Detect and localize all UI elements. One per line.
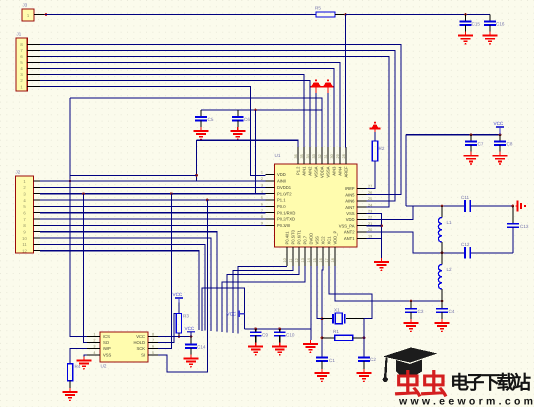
svg-text:AIN5: AIN5: [345, 192, 355, 197]
svg-text:C12: C12: [461, 242, 470, 247]
svg-text:P1.2: P1.2: [296, 166, 301, 175]
junction antenna node: [511, 205, 514, 208]
svg-text:4: 4: [93, 351, 95, 355]
wire R2 to U1 pin27: [367, 161, 376, 188]
svg-text:VSS_PA: VSS_PA: [339, 223, 355, 228]
junction L1 top: [441, 205, 444, 208]
svg-text:7: 7: [152, 339, 154, 343]
svg-text:P0.7: P0.7: [303, 235, 308, 244]
svg-text:11: 11: [22, 242, 27, 247]
wire U1 pin20 to bottom rail: [367, 232, 466, 253]
junction C3 tap: [410, 300, 413, 303]
resistor R1: [335, 335, 353, 340]
wire R5 junction to C16: [346, 14, 491, 16]
svg-text:U2: U2: [101, 364, 107, 369]
svg-text:31: 31: [324, 154, 328, 158]
svg-text:2: 2: [93, 339, 95, 343]
wire J2 pin2 to U1 pin3: [40, 186, 266, 188]
inductor L2: [438, 265, 442, 290]
junction J2 row1 at x70 crossing: [69, 180, 72, 183]
wire long net to U1 pin32: [70, 98, 322, 147]
ground under C2: [357, 369, 372, 382]
svg-text:P0.4/I1: P0.4/I1: [285, 231, 290, 245]
wire U2 HOLD up: [158, 314, 179, 343]
svg-text:10: 10: [22, 236, 27, 241]
IC U1 nRF24E1 body: [275, 164, 358, 247]
svg-text:VDD: VDD: [277, 172, 286, 177]
wire J2 pin4 to U1 pin5: [40, 199, 266, 201]
svg-text:AIN1: AIN1: [302, 166, 307, 176]
svg-text:XC1: XC1: [327, 236, 332, 245]
svg-text:VSS: VSS: [346, 211, 355, 216]
resistor R2: [372, 141, 377, 161]
svg-text:C15: C15: [472, 22, 481, 27]
svg-text:P0.0: P0.0: [277, 204, 286, 209]
svg-text:J3: J3: [23, 3, 28, 8]
wire U1 pin16 down to crystal node: [322, 266, 323, 358]
svg-text:P1.0/T2: P1.0/T2: [277, 191, 292, 196]
capacitor C11: [461, 195, 470, 212]
wire U1 pin18 to antenna low node: [335, 266, 442, 301]
svg-text:C16: C16: [496, 22, 505, 27]
svg-text:/WP: /WP: [103, 346, 111, 351]
VCC above C8: [496, 126, 504, 128]
wire J1 pin5 to U1 pin29: [40, 62, 340, 147]
wire J2 pin3 to U2 SO: [84, 194, 88, 343]
svg-text:VDD: VDD: [346, 217, 355, 222]
ground under C1: [315, 369, 330, 382]
connector J2: [16, 170, 41, 254]
svg-text:1: 1: [93, 333, 95, 337]
antenna port symbol: [516, 201, 527, 212]
IC U2 pins: [87, 333, 158, 358]
svg-text:/CS: /CS: [103, 334, 110, 339]
IC U2 body: [100, 332, 148, 362]
capacitor C16: [484, 15, 505, 32]
wire vertical to VDD row: [196, 140, 198, 181]
inductor L1 top lead: [441, 206, 443, 218]
wire top rail right: [470, 205, 514, 207]
junction rail-C6 tap: [254, 109, 257, 112]
wire J2 pin12 down: [40, 251, 199, 330]
svg-text:VSSA: VSSA: [314, 166, 319, 177]
node J3 wire start: [45, 13, 48, 16]
wire U1 pin14 down: [310, 266, 312, 340]
wire J2 pin3 to U2 SCK: [158, 194, 171, 349]
junction X1 left: [321, 317, 324, 320]
svg-text:AREF: AREF: [344, 166, 349, 178]
connector J1: [16, 32, 40, 92]
capacitor C14: [185, 337, 206, 355]
inductor L2 bottom lead: [441, 289, 443, 301]
power VDD arrow right: [324, 79, 333, 86]
wire C9 rail up corner: [202, 288, 245, 331]
ground under U1 pin14: [303, 340, 318, 353]
wire J1 pin8 to U1 pin26 column: [40, 44, 401, 194]
wire R4 bottom lead: [69, 381, 71, 388]
capacitor C13: [507, 224, 529, 229]
svg-text:C10: C10: [286, 333, 295, 338]
power arrow above R2: [370, 122, 381, 132]
wire J2 pin5 to U1 pin6: [40, 205, 266, 207]
wire U2 VCC row: [158, 336, 191, 338]
wire J2 pin11 down: [40, 244, 205, 330]
junction SI tap: [206, 199, 209, 202]
inductor L2 top lead: [441, 253, 443, 265]
wire x70 down to U2 CS: [70, 98, 87, 337]
svg-text:C3: C3: [418, 309, 424, 314]
logo graduation cap: [383, 348, 438, 383]
ground U2 VSS: [77, 357, 92, 370]
wire VDD arrow left to U1 pin33: [315, 93, 317, 147]
capacitor C13 top lead: [512, 206, 514, 224]
svg-text:C1: C1: [329, 358, 335, 363]
wire R5 to junction: [335, 14, 346, 16]
capacitor C12: [461, 242, 470, 259]
wire J2 pin8 to U1 pin9: [40, 224, 266, 226]
junction R1 right: [363, 337, 366, 340]
wire VDD row left segment: [70, 174, 197, 176]
svg-text:17: 17: [325, 258, 329, 262]
svg-text:HOLD: HOLD: [133, 340, 145, 345]
svg-text:C7: C7: [478, 142, 484, 147]
power stub right: [327, 87, 329, 93]
wire R3 bottom lead: [178, 333, 180, 337]
wire R1 left lead: [322, 337, 335, 339]
svg-text:AIN4: AIN4: [338, 166, 343, 176]
svg-text:32: 32: [318, 154, 322, 158]
wire J1 pin6 to U1 pin24 column: [40, 56, 389, 207]
wire J1 pin3 to U1 pin35: [40, 74, 304, 147]
junction C4-L2 tap: [441, 300, 444, 303]
capacitor C10: [274, 329, 295, 343]
wire VDD arrow right to U1 pin31: [327, 93, 329, 147]
svg-text:IREF: IREF: [345, 186, 355, 191]
svg-text:ANT1: ANT1: [344, 236, 355, 241]
svg-text:电子下载站: 电子下载站: [450, 372, 531, 394]
svg-text:VDD_P: VDD_P: [333, 230, 338, 244]
junction C9 tap: [254, 327, 257, 330]
svg-text:VCC: VCC: [227, 311, 237, 316]
wire C5-C6 rail: [201, 109, 322, 111]
resistor R3: [176, 314, 181, 334]
svg-text:29: 29: [336, 154, 340, 158]
ground under C15: [458, 32, 473, 45]
wire J2 pin4 to U2 SI: [158, 200, 207, 372]
wire C9C10 rail: [245, 328, 311, 330]
svg-text:14: 14: [307, 258, 311, 262]
wire bottom rail right: [470, 252, 513, 254]
svg-text:VDDA: VDDA: [320, 166, 325, 178]
ground under C5: [194, 127, 209, 140]
svg-text:AIN2: AIN2: [308, 166, 313, 176]
svg-text:8: 8: [152, 333, 154, 337]
VCC at C9 rail: [238, 311, 240, 317]
svg-text:VSS: VSS: [103, 353, 112, 358]
svg-text:SCK: SCK: [136, 346, 145, 351]
svg-text:10: 10: [283, 258, 287, 262]
svg-text:C9: C9: [262, 333, 268, 338]
ground under C4: [435, 319, 450, 332]
svg-text:35: 35: [300, 154, 304, 158]
svg-text:U1: U1: [275, 153, 281, 158]
svg-text:12: 12: [22, 249, 27, 254]
svg-text:AIN3: AIN3: [332, 166, 337, 176]
svg-text:AIN7: AIN7: [345, 205, 355, 210]
junction R3 to VCC row: [178, 335, 181, 338]
wire U2 VSS to ground: [84, 355, 87, 357]
junction L1 bottom: [441, 251, 444, 254]
svg-text:R3: R3: [183, 314, 189, 319]
wire R2 top lead: [374, 132, 376, 141]
svg-text:VCC: VCC: [173, 292, 183, 297]
svg-text:33: 33: [312, 154, 316, 158]
svg-text:36: 36: [294, 154, 298, 158]
wire top rail left: [406, 205, 465, 207]
svg-text:C11: C11: [461, 195, 470, 200]
svg-text:C4: C4: [449, 309, 455, 314]
wire J1 pin2 to U1 pin34: [40, 80, 310, 147]
svg-text:C6: C6: [244, 117, 250, 122]
ground under C8: [493, 152, 508, 165]
svg-text:28: 28: [342, 154, 346, 158]
junction C8 tap: [499, 133, 502, 136]
inductor L1: [438, 218, 442, 243]
svg-text:30: 30: [330, 154, 334, 158]
ground under C9: [248, 343, 263, 356]
svg-text:34: 34: [306, 154, 310, 158]
svg-text:P1.1: P1.1: [277, 198, 286, 203]
inductor L1 bottom lead: [441, 242, 443, 253]
wire U1 pin11 staircase: [233, 266, 293, 333]
svg-text:R1: R1: [333, 329, 339, 334]
junction SO tap: [82, 192, 85, 195]
svg-text:VSSA: VSSA: [326, 166, 331, 177]
svg-text:16: 16: [319, 258, 323, 262]
junction VDD row at x196: [195, 174, 198, 177]
ground under R4: [63, 388, 78, 401]
svg-text:R4: R4: [75, 364, 81, 369]
wire U1 pin22 to top rail: [367, 206, 414, 219]
junction SCK tap: [170, 192, 173, 195]
wire J2 pin10 down: [40, 238, 211, 331]
svg-text:P0.3/I0: P0.3/I0: [277, 223, 291, 228]
svg-text:SO: SO: [103, 340, 110, 345]
capacitor C15: [460, 15, 481, 32]
capacitor C1: [316, 358, 335, 370]
wire U1 pin17 to crystal right: [329, 266, 372, 319]
svg-text:13: 13: [301, 258, 305, 262]
ground U1 VSS: [374, 258, 389, 271]
wire J1 pin7 to U1 pin25 column: [40, 50, 395, 201]
svg-text:C8: C8: [507, 142, 513, 147]
junction VSS_PA tap: [380, 224, 383, 227]
ground under C16: [483, 32, 498, 45]
svg-text:P0.6/T1: P0.6/T1: [297, 229, 302, 244]
svg-text:XC2: XC2: [321, 236, 326, 245]
junction R1 left: [321, 337, 324, 340]
svg-text:6: 6: [152, 345, 154, 349]
svg-text:C2: C2: [370, 357, 376, 362]
junction R5 out: [344, 13, 347, 16]
svg-text:18: 18: [331, 258, 335, 262]
power bar VDD arrows: [311, 86, 334, 88]
svg-text:ANT2: ANT2: [344, 230, 355, 235]
VCC above C14: [187, 331, 195, 333]
svg-text:AIN0: AIN0: [277, 179, 287, 184]
svg-text:C13: C13: [520, 224, 529, 229]
IC U1 pins: [261, 147, 372, 266]
svg-text:3: 3: [93, 345, 95, 349]
resistor R5: [316, 12, 335, 17]
capacitor C4: [436, 301, 455, 319]
power stub left: [315, 87, 317, 93]
wire VCC to R3: [178, 303, 180, 314]
junction C7 tap: [470, 133, 473, 136]
wire U1 pin10 staircase: [238, 266, 287, 333]
ground under C14: [184, 355, 199, 368]
svg-text:C5: C5: [208, 117, 214, 122]
capacitor C3: [405, 301, 424, 319]
svg-text:11: 11: [289, 259, 293, 263]
capacitor C13 bottom lead: [512, 227, 514, 253]
wire C7C8 rail: [406, 134, 500, 136]
wire J3 to R5: [45, 14, 316, 16]
wire U1 pin15 hook: [317, 266, 322, 319]
svg-text:DVDD1: DVDD1: [277, 185, 292, 190]
svg-text:X1: X1: [334, 308, 340, 313]
wire rail tap down to J2 row: [255, 110, 257, 194]
svg-text:5: 5: [152, 351, 154, 355]
svg-text:DVDD: DVDD: [309, 233, 314, 245]
svg-text:VSS: VSS: [315, 236, 320, 245]
ground under C6: [230, 127, 245, 140]
wire VCC bar to C14 node: [190, 332, 192, 337]
power VDD arrow left: [312, 79, 321, 86]
svg-text:VCC: VCC: [185, 326, 195, 331]
svg-text:P0.2/TXD: P0.2/TXD: [277, 217, 295, 222]
junction C15 tap: [464, 13, 467, 16]
svg-text:R5: R5: [315, 6, 321, 11]
wire J1 pin1 to U1 VDD pin1: [40, 87, 266, 176]
wire C7C8 rail feed: [405, 135, 407, 206]
wire J1 pin4 to U1 pin30: [40, 68, 334, 147]
capacitor C6: [232, 110, 250, 127]
junction C10 tap: [278, 327, 281, 330]
svg-text:J1: J1: [17, 32, 22, 37]
svg-text:L1: L1: [447, 220, 453, 225]
capacitor C9: [250, 329, 268, 343]
svg-text:VCC: VCC: [494, 121, 504, 126]
wire J2 pin3 to U1 pin4: [40, 193, 266, 195]
crystal X1: [322, 308, 364, 324]
svg-text:R2: R2: [379, 146, 385, 151]
svg-text:SI: SI: [141, 353, 145, 358]
svg-text:P0.5/T0: P0.5/T0: [291, 229, 296, 244]
svg-text:J2: J2: [16, 170, 21, 175]
wire crystal right node: [363, 319, 365, 358]
wire U1 pin12 staircase: [227, 266, 299, 333]
svg-text:1: 1: [261, 171, 263, 175]
ground under C3: [404, 319, 419, 332]
capacitor C5: [195, 110, 214, 127]
wire J2 pin7 to U1 pin8: [40, 218, 266, 220]
wire net to U1 pin36: [197, 140, 299, 147]
VCC above R3: [175, 297, 183, 299]
junction C14 tap: [190, 335, 193, 338]
svg-text:P0.1/RXD: P0.1/RXD: [277, 210, 295, 215]
wire U1 pin21 to VSS net: [367, 225, 382, 227]
wire U1 pin23 VSS down: [367, 213, 382, 258]
wire U1 pin19 to ground net: [367, 238, 382, 258]
wire U2 WP to R4: [70, 349, 87, 364]
svg-text:L2: L2: [447, 267, 453, 272]
wire U1 pin13 staircase: [222, 266, 305, 332]
svg-text:15: 15: [313, 258, 317, 262]
ground under C10: [272, 343, 287, 356]
svg-text:AIN6: AIN6: [345, 199, 355, 204]
resistor R4: [67, 364, 72, 381]
wire R5 junction down to U1 pin 28: [345, 15, 348, 148]
ground under C7: [464, 152, 479, 165]
capacitor C7: [465, 135, 484, 152]
capacitor C2: [358, 357, 376, 369]
capacitor C8: [494, 135, 513, 152]
wire J2 pin6 to U1 pin7: [40, 212, 266, 214]
connector J3: [22, 3, 45, 22]
svg-text:12: 12: [295, 258, 299, 262]
wire J2 pin9 down: [40, 232, 217, 332]
svg-text:C14: C14: [197, 345, 206, 350]
svg-text:VCC: VCC: [136, 334, 145, 339]
wire J2 pin1 to U1 pin2: [40, 180, 266, 182]
wire R1 right lead: [353, 337, 364, 339]
